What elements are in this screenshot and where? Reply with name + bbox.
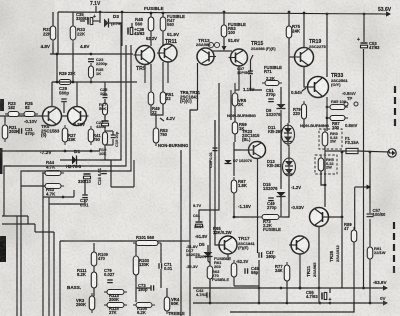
wire R45 top stub bbox=[150, 12, 152, 17]
wire D15 bottom bbox=[280, 197, 282, 217]
capacitor C36 label bbox=[134, 27, 145, 36]
left edge black blob bbox=[0, 236, 6, 262]
wire TR17 down bbox=[227, 254, 229, 260]
junction x327 y118 bbox=[326, 117, 329, 120]
resistor R21 bbox=[2, 122, 8, 142]
junction x327 y107 bbox=[326, 106, 329, 109]
junction 0V x287 bbox=[286, 302, 289, 305]
junction x300 y288 bbox=[299, 287, 302, 290]
wire input y116 bbox=[0, 115, 43, 117]
wire step v35 bbox=[34, 224, 36, 232]
resistor R59 bbox=[232, 119, 238, 137]
diode D3 label bbox=[113, 14, 119, 19]
transistor TR15 part bbox=[251, 47, 276, 51]
wire top rail arrowhead bbox=[386, 11, 391, 16]
transistor TR19 label bbox=[309, 39, 321, 45]
wire C17 drop bbox=[84, 180, 86, 195]
wire R63b bottom bbox=[209, 279, 211, 303]
transistor TR13 part2 bbox=[196, 42, 211, 47]
capacitor C49 bbox=[268, 198, 274, 201]
fuse F1 bbox=[343, 148, 361, 153]
wire TR25 down bbox=[318, 227, 320, 303]
wire mid v231 bbox=[230, 90, 232, 120]
node +53.6V label bbox=[378, 7, 392, 13]
node 1.15V label bbox=[243, 87, 255, 92]
node 4.8V label left bbox=[41, 44, 51, 49]
resistor R87 bbox=[327, 116, 348, 121]
junction rail x327 bbox=[326, 13, 329, 16]
wire R53 top bbox=[155, 115, 157, 128]
capacitor C15 bbox=[101, 171, 107, 174]
node -1.15V label bbox=[238, 204, 251, 209]
junction v342 at output line bbox=[341, 151, 344, 154]
variable resistor VR5 bbox=[232, 90, 238, 109]
diode D7 label bbox=[233, 159, 252, 163]
diode D9 bbox=[277, 104, 286, 109]
node -7.2V label bbox=[40, 150, 52, 156]
variable resistor VR3 bbox=[89, 293, 95, 313]
node -52.3V label2 bbox=[186, 264, 198, 269]
resistor R49 label bbox=[152, 106, 160, 115]
resistor R67 label bbox=[238, 179, 247, 188]
wire C55 drop bbox=[329, 288, 331, 293]
transistor TR13 bbox=[197, 48, 216, 65]
wire TR15 emitter down bbox=[235, 66, 239, 90]
wire C37 column bbox=[251, 55, 254, 71]
wire left rail x58 bbox=[57, 12, 59, 54]
input terminal mark bbox=[0, 99, 4, 111]
wire x100 drop bbox=[99, 12, 101, 23]
wire R53f top bbox=[223, 11, 225, 25]
capacitor C73 label bbox=[138, 283, 148, 292]
resistor R71 value bbox=[266, 76, 275, 81]
wire mid v219 bbox=[199, 83, 219, 221]
resistor R113 bbox=[104, 290, 127, 295]
wire 4.2V tick bbox=[160, 118, 164, 121]
resistor R87 label bbox=[332, 121, 340, 130]
resistor R53t label bbox=[160, 128, 168, 137]
resistor R53 label bbox=[228, 22, 246, 35]
junction rail x224 bbox=[223, 11, 226, 14]
wire top +53.6V rail bbox=[58, 12, 390, 14]
resistor R27 bbox=[62, 125, 68, 145]
wire C35 right bbox=[93, 20, 100, 22]
capacitor C43 label bbox=[196, 288, 208, 297]
node -52.3V label bbox=[236, 259, 249, 264]
resistor R61 bbox=[231, 260, 237, 280]
resistor R85 label bbox=[331, 99, 347, 104]
arrow down at base link bbox=[222, 46, 227, 51]
wire h187 tap bbox=[355, 186, 367, 188]
capacitor C27 bbox=[102, 121, 109, 126]
wire D3 right bbox=[109, 22, 122, 24]
transistor TR23 bbox=[247, 142, 266, 159]
node -0.53V label bbox=[291, 205, 304, 210]
diode D5 label bbox=[199, 242, 205, 247]
wire C19 tap top bbox=[105, 130, 113, 132]
wire TR5 bases join bbox=[61, 115, 68, 117]
variable resistor VR4 label bbox=[171, 297, 180, 306]
wire R43 left lead bbox=[21, 185, 45, 187]
wire C37 bottom bbox=[251, 75, 263, 90]
wire bottom return bbox=[230, 303, 354, 312]
resistor R103 bbox=[133, 253, 139, 278]
wire C36 drop bbox=[131, 23, 133, 28]
resistor R73 label bbox=[263, 219, 281, 232]
wire tone v136 bbox=[135, 243, 137, 256]
transistor TR33 part bbox=[331, 78, 348, 87]
wire v210 bbox=[209, 160, 211, 300]
wire v370 upper bbox=[369, 152, 371, 213]
wire TR13-TR15 base link bbox=[212, 50, 232, 52]
dashed border right bbox=[394, 86, 395, 274]
diode D11 label bbox=[268, 125, 283, 134]
junction y54 x91 bbox=[90, 53, 93, 56]
node 4.2V label bbox=[166, 116, 175, 121]
transistor TR13 part bbox=[0, 0, 1, 1]
variable resistor VR5 label bbox=[238, 98, 247, 107]
resistor R109 label bbox=[98, 252, 109, 261]
wire TR33 top bbox=[326, 14, 328, 77]
wire RH5 down bbox=[321, 171, 325, 185]
left edge dark mark bbox=[0, 148, 3, 174]
wire step h224 bbox=[2, 223, 35, 225]
resistor R47 label bbox=[167, 14, 185, 27]
wire R67 bottom bbox=[233, 193, 235, 217]
capacitor C55 bbox=[322, 293, 327, 300]
wire R53f down bbox=[223, 37, 225, 47]
diode D5 part bbox=[195, 254, 210, 259]
wire 0V rail bbox=[193, 302, 387, 304]
resistor R115 bbox=[104, 303, 127, 308]
resistor R105 label bbox=[137, 306, 148, 315]
wire VR5 top bbox=[234, 83, 236, 93]
fuse F1 label bbox=[345, 136, 359, 145]
transistor TR33 label bbox=[331, 73, 343, 79]
wire tone v161 bbox=[160, 243, 162, 263]
resistor R73 bbox=[259, 215, 282, 220]
resistor R77 label bbox=[275, 264, 283, 273]
capacitor C61 value label bbox=[194, 225, 204, 229]
wire fb col d bbox=[104, 127, 106, 132]
capacitor C57 bbox=[367, 214, 374, 217]
box tone left edge bbox=[59, 241, 61, 316]
capacitor C23 label bbox=[96, 57, 108, 66]
resistor R19 bbox=[103, 129, 108, 148]
wire TR21 down bbox=[299, 254, 301, 288]
wire VR5-R59 bbox=[234, 106, 236, 122]
capacitor C47 label bbox=[266, 250, 276, 259]
resistor R111 label bbox=[77, 268, 87, 277]
resistor R71 bbox=[262, 81, 282, 86]
wire D9 top bbox=[280, 87, 282, 104]
wire C53 drop bbox=[363, 14, 365, 42]
resistor R17 label bbox=[99, 102, 107, 111]
wire R75 to TR19 base bbox=[289, 56, 293, 58]
capacitor C35 bbox=[88, 18, 93, 25]
node 51.6V label bbox=[228, 38, 240, 43]
wire C29 bottom bbox=[63, 102, 65, 113]
wire R31 col down bbox=[52, 43, 54, 54]
wire D9 to D15 bbox=[280, 110, 282, 189]
box tone top edge bbox=[60, 240, 190, 242]
wire R47 top stub bbox=[162, 12, 164, 17]
test point circles bbox=[344, 102, 358, 106]
wire 0.54V tick bbox=[302, 88, 306, 91]
capacitor C79 bbox=[107, 280, 113, 283]
wire TR11 emitter drop bbox=[162, 31, 164, 45]
transistor TR13 label bbox=[198, 38, 210, 44]
transistor TR9 label bbox=[136, 66, 146, 72]
junction -53.6V x259 bbox=[258, 287, 261, 290]
wire R59 down bbox=[234, 134, 236, 142]
wire v215-d bbox=[214, 120, 216, 160]
capacitor C35 plus bbox=[93, 14, 96, 20]
wire v342 bbox=[341, 152, 343, 288]
resistor R53t bbox=[153, 125, 159, 146]
capacitor C61 bbox=[196, 222, 203, 227]
capacitor C55 plus bbox=[329, 297, 332, 303]
junction -7.2V x65 bbox=[64, 150, 67, 153]
net NON-BURNING label 3 bbox=[300, 123, 329, 128]
capacitor C53 bbox=[361, 43, 368, 48]
wire TR13 bottom bbox=[197, 63, 199, 110]
wire 7.1V stub bbox=[95, 6, 97, 12]
wire TR11 collector drop bbox=[167, 62, 169, 83]
resistor R89 label bbox=[344, 222, 352, 231]
arrow into v370 bbox=[367, 185, 372, 190]
wire fb col a bbox=[104, 82, 106, 95]
resistor R79 bbox=[302, 101, 307, 122]
wire fb col b bbox=[104, 99, 106, 103]
wire step h216 bbox=[2, 215, 28, 217]
wire -53.6V rail bbox=[193, 287, 387, 289]
wire tone v136b bbox=[135, 275, 137, 302]
resistor R25 bbox=[21, 112, 38, 117]
resistor R47 bbox=[160, 14, 166, 34]
node -51.8V label bbox=[195, 234, 208, 239]
variable resistor VR4 bbox=[164, 294, 170, 314]
wire step v28 bbox=[27, 216, 29, 224]
wire R79 bottom stub bbox=[303, 119, 305, 128]
junction y197 x63 bbox=[62, 196, 65, 199]
junction top x122 bbox=[121, 11, 124, 14]
resistor R111 bbox=[91, 269, 97, 291]
wire TR5 left collector up bbox=[51, 82, 53, 107]
diode D1 part label bbox=[66, 164, 82, 169]
wire tone h288 bbox=[136, 287, 151, 289]
capacitor C25 label bbox=[100, 87, 108, 96]
node -51.8V label2 bbox=[186, 244, 201, 257]
capacitor C17 bbox=[82, 195, 88, 198]
transistor TR9 bbox=[134, 46, 155, 65]
capacitor C55 label bbox=[306, 290, 318, 299]
resistor R44 label bbox=[46, 160, 56, 169]
transistor TR19 part bbox=[309, 44, 326, 49]
wire R89 bottom bbox=[353, 242, 355, 312]
capacitor C45 bbox=[245, 268, 248, 274]
wire C35 left bbox=[80, 20, 85, 22]
junction 0V x210 bbox=[209, 302, 212, 305]
resistor RH3 bbox=[322, 129, 328, 149]
resistor R53 fus bbox=[221, 22, 227, 40]
net BASS label bbox=[67, 285, 81, 290]
wire C53 column down bbox=[363, 49, 365, 288]
wire v370 mid bbox=[369, 219, 371, 247]
node 0.54V label bbox=[291, 90, 303, 95]
capacitor C39 bbox=[213, 148, 218, 151]
capacitor 330/10 label bbox=[78, 179, 91, 184]
node 51.9V label bbox=[167, 32, 180, 37]
junction 0V x259 bbox=[258, 302, 261, 305]
resistor R41 label bbox=[93, 133, 101, 142]
wire R33 col down bbox=[72, 43, 74, 54]
capacitor C35 label bbox=[76, 12, 89, 21]
capacitor C49 label bbox=[267, 201, 277, 210]
junction -7.2V x91 bbox=[90, 150, 93, 153]
wire D5 bottom stub bbox=[208, 258, 210, 263]
wire bus v134 bbox=[133, 160, 135, 187]
wire R49 top bbox=[150, 64, 152, 92]
wire step v49 bbox=[48, 197, 50, 316]
node 9.7V label bbox=[193, 203, 202, 208]
diode D3 part label bbox=[111, 21, 122, 26]
transistor TR17 part bbox=[238, 241, 255, 250]
transistor TR5 right half bbox=[68, 107, 89, 126]
capacitor C61 label bbox=[193, 214, 200, 218]
transistor TR5 label bbox=[41, 124, 60, 138]
wire mid v215 upper bbox=[214, 120, 216, 146]
wire base col down bbox=[288, 57, 290, 123]
resistor R109 bbox=[91, 249, 97, 269]
diode D15 bbox=[277, 192, 286, 197]
wire v181 bbox=[180, 150, 182, 316]
resistor R101 bbox=[133, 241, 161, 246]
junction x325 y185 bbox=[324, 184, 327, 187]
wire R31 top bbox=[52, 12, 54, 26]
junction 0V x330 bbox=[329, 302, 332, 305]
capacitor C79 label bbox=[104, 268, 115, 277]
junction rail x304 bbox=[303, 12, 306, 15]
wire tone v94b bbox=[93, 266, 95, 272]
capacitor C21 bbox=[19, 128, 22, 134]
wire step h204 bbox=[49, 203, 85, 205]
junction x370 y303 bbox=[369, 302, 372, 305]
node -0.10V label bbox=[24, 119, 37, 124]
diode D11 pair bbox=[282, 123, 295, 146]
transistor TR33 bbox=[306, 77, 329, 98]
diode D1 bbox=[72, 156, 77, 165]
node -0.73V label bbox=[72, 122, 85, 127]
wire bus v126 step bbox=[4, 45, 126, 216]
resistor R101 label bbox=[136, 235, 155, 240]
resistor R75 bbox=[286, 23, 292, 41]
junction rail x289 bbox=[288, 11, 291, 14]
capacitor C57 label bbox=[373, 208, 386, 217]
capacitor C47 bbox=[259, 252, 262, 258]
wire fb col c bbox=[104, 115, 106, 121]
resistor R77 bbox=[284, 262, 290, 284]
resistor R21 label bbox=[9, 125, 19, 134]
diode D1 label bbox=[74, 149, 80, 155]
diode D3 bbox=[104, 19, 109, 28]
node 4.8V label right bbox=[80, 44, 90, 49]
wire D1 row bbox=[60, 159, 100, 161]
resistor R63b bbox=[207, 263, 213, 282]
wire TR9 emitter drop bbox=[150, 31, 152, 46]
wire TR5 right collector up bbox=[76, 82, 78, 107]
wire R61 bottom bbox=[233, 277, 235, 286]
diode D7 bbox=[225, 160, 232, 164]
resistor R79 label bbox=[293, 107, 301, 116]
wire tone v167 bbox=[166, 288, 168, 297]
capacitor C25 bbox=[103, 95, 108, 98]
capacitor C29 bbox=[61, 99, 67, 102]
net TREBLE label bbox=[168, 311, 185, 316]
diode D5 bbox=[204, 252, 213, 257]
capacitor C51 label bbox=[266, 88, 276, 97]
wire C17 bottom bbox=[84, 199, 86, 204]
wire TR23 down bbox=[257, 159, 259, 253]
resistor R115 label bbox=[109, 306, 119, 315]
resistor RH5 dashed box bbox=[315, 155, 337, 174]
resistor R61 labels bbox=[214, 256, 231, 269]
resistor R23 label bbox=[8, 101, 16, 110]
junction v342 at TR25 base bbox=[341, 216, 344, 219]
diode D13 label bbox=[267, 159, 282, 168]
wire TR19 emitter to TR33 base bbox=[304, 67, 307, 87]
capacitor C45 label bbox=[251, 266, 259, 275]
wire bus v111 bbox=[110, 160, 112, 187]
wire R33 top bbox=[72, 12, 74, 26]
wire x122 drop bbox=[121, 12, 123, 46]
wire R91 bottom bbox=[369, 259, 371, 303]
wire y286 link bbox=[234, 285, 259, 287]
resistor R43 bbox=[42, 184, 64, 189]
junction y54 x57 bbox=[56, 53, 59, 56]
wire -1.15 row bbox=[234, 216, 259, 218]
wire v259 bbox=[258, 260, 260, 303]
capacitor C53 plus bbox=[357, 37, 360, 43]
wire C19 s1 bbox=[112, 131, 114, 135]
node 52.2V label bbox=[146, 36, 157, 41]
transistor TR17 label bbox=[238, 236, 250, 242]
resistor R33 value label bbox=[77, 27, 86, 36]
resistor RH5 bbox=[318, 155, 324, 174]
junction 0V x320 bbox=[319, 302, 322, 305]
wire 0V arrowhead bbox=[383, 300, 388, 305]
transistor TR11 bbox=[157, 44, 177, 62]
wire D5 top stub bbox=[207, 245, 209, 252]
capacitor C17 label bbox=[80, 198, 89, 207]
wire led link bbox=[288, 145, 290, 157]
resistor R43 label bbox=[46, 187, 56, 196]
resistor RH5 label bbox=[326, 157, 335, 170]
wire bus h187 bbox=[111, 186, 134, 188]
wire C19 s2 bbox=[112, 139, 114, 145]
node -0.8mV label bbox=[342, 91, 356, 96]
resistor R29 bbox=[56, 80, 74, 85]
resistor R89 bbox=[351, 227, 357, 245]
resistor R41 bbox=[88, 126, 94, 145]
diode D9 label bbox=[266, 108, 281, 117]
junction y82 x91 bbox=[90, 81, 93, 84]
junction top x100 bbox=[99, 11, 102, 14]
diode D15 label bbox=[263, 182, 278, 191]
wire tone v161b bbox=[160, 269, 162, 288]
resistor RH3 dashed box bbox=[319, 129, 342, 149]
wire R51 top bbox=[162, 62, 164, 92]
